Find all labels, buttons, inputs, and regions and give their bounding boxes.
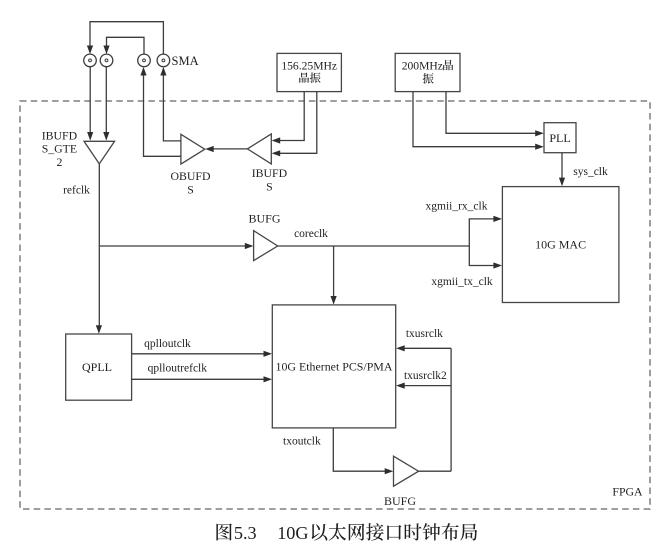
SMA connector J1 bbox=[84, 54, 97, 67]
wire 200MHz osc to PLL input 2 bbox=[446, 92, 537, 134]
wire xgmii_tx_clk into 10G MAC bbox=[469, 265, 495, 267]
svg-text:IBUFD: IBUFD bbox=[42, 128, 78, 142]
svg-text:10G Ethernet PCS/PMA: 10G Ethernet PCS/PMA bbox=[276, 359, 393, 373]
wire OBUFDS N output to J3 bbox=[144, 74, 181, 157]
svg-text:BUFG: BUFG bbox=[384, 494, 416, 508]
wire 156.25MHz osc to IBUFDS P bbox=[278, 92, 304, 141]
svg-text:SMA: SMA bbox=[172, 54, 199, 68]
svg-text:S: S bbox=[187, 183, 194, 197]
wire coreclk fanout to 10G MAC (junction) bbox=[468, 219, 470, 266]
svg-text:S_GTE: S_GTE bbox=[42, 142, 77, 156]
svg-text:OBUFD: OBUFD bbox=[171, 169, 211, 183]
svg-text:FPGA: FPGA bbox=[612, 485, 643, 499]
wire BUFG txusrclk output bbox=[419, 470, 452, 472]
wire OBUFDS P output to J4 bbox=[163, 74, 181, 141]
block QPLL bbox=[66, 334, 132, 400]
buffer BUFG (coreclk) bbox=[254, 231, 278, 261]
svg-text:BUFG: BUFG bbox=[248, 212, 280, 226]
svg-text:txusrclk: txusrclk bbox=[406, 328, 443, 340]
156.25MHz oscillator label line2 bbox=[299, 72, 309, 82]
svg-text:coreclk: coreclk bbox=[294, 228, 328, 240]
FPGA boundary (dashed box) bbox=[20, 101, 650, 509]
200MHz oscillator label line2 bbox=[423, 73, 434, 84]
svg-text:2: 2 bbox=[56, 155, 62, 169]
svg-text:5.3: 5.3 bbox=[234, 523, 257, 543]
wire qplloutrefclk (QPLL to PCS/PMA) bbox=[132, 378, 266, 380]
svg-text:txoutclk: txoutclk bbox=[283, 435, 321, 447]
wire txusrclk2 into PCS/PMA bbox=[403, 385, 451, 387]
wire 200MHz osc to PLL input 1 bbox=[413, 92, 537, 147]
block PLL bbox=[544, 123, 576, 153]
wire qplloutclk (QPLL to PCS/PMA) bbox=[132, 353, 266, 355]
block 156.25MHz crystal oscillator bbox=[277, 53, 341, 91]
svg-text:qplloutrefclk: qplloutrefclk bbox=[148, 362, 208, 374]
svg-text:xgmii_rx_clk: xgmii_rx_clk bbox=[426, 200, 488, 212]
wire 156.25MHz osc to IBUFDS N bbox=[278, 92, 316, 154]
buffer OBUFDS (triangle) bbox=[181, 134, 205, 164]
svg-text:S: S bbox=[266, 180, 273, 194]
wire loopback J4 to J1 bbox=[90, 22, 163, 54]
svg-text:refclk: refclk bbox=[63, 184, 90, 196]
wire IBUFDS to OBUFDS bbox=[212, 148, 247, 150]
svg-text:10G MAC: 10G MAC bbox=[535, 238, 586, 252]
block 200MHz crystal oscillator bbox=[395, 53, 460, 91]
svg-text:xgmii_tx_clk: xgmii_tx_clk bbox=[431, 276, 493, 288]
svg-text:IBUFD: IBUFD bbox=[252, 166, 288, 180]
wire txoutclk (PCS/PMA to BUFG) bbox=[333, 428, 386, 471]
SMA connector J3 bbox=[138, 54, 151, 67]
wire loopback J3 to J2 bbox=[107, 37, 145, 54]
wire coreclk (BUFG output) bbox=[278, 245, 470, 247]
wire xgmii_rx_clk into 10G MAC bbox=[469, 218, 495, 220]
svg-text:156.25MHz: 156.25MHz bbox=[281, 59, 337, 72]
buffer IBUFDS_GTE2 (triangle) bbox=[84, 141, 115, 164]
wire refclk tap to BUFG bbox=[99, 245, 246, 247]
buffer BUFG (txusrclk) bbox=[394, 456, 419, 486]
svg-text:qplloutclk: qplloutclk bbox=[144, 338, 191, 350]
svg-text:QPLL: QPLL bbox=[82, 360, 112, 374]
SMA connector J2 bbox=[100, 54, 113, 67]
svg-text:txusrclk2: txusrclk2 bbox=[404, 370, 447, 382]
block 10G MAC bbox=[502, 187, 619, 303]
wire txusrclk into PCS/PMA bbox=[403, 347, 451, 349]
wire J2 to IBUFDS_GTE2 N input bbox=[105, 67, 107, 132]
caption 图5.3 bbox=[216, 523, 232, 540]
buffer IBUFDS (triangle) bbox=[247, 134, 271, 164]
wire refclk (IBUFDS_GTE2 to QPLL) bbox=[98, 164, 100, 330]
SMA connector J4 bbox=[157, 54, 170, 67]
svg-text:PLL: PLL bbox=[549, 131, 570, 145]
wire J1 to IBUFDS_GTE2 P input bbox=[89, 67, 91, 132]
wire coreclk branch to PCS/PMA bbox=[333, 246, 335, 298]
block 10G Ethernet PCS/PMA bbox=[272, 305, 395, 428]
wire BUFG output feedback (vertical) bbox=[450, 348, 452, 471]
wire sys_clk (PLL to 10G MAC) bbox=[561, 153, 563, 180]
svg-text:10G: 10G bbox=[277, 523, 308, 543]
svg-text:sys_clk: sys_clk bbox=[573, 166, 608, 178]
svg-text:200MHz: 200MHz bbox=[402, 59, 443, 72]
